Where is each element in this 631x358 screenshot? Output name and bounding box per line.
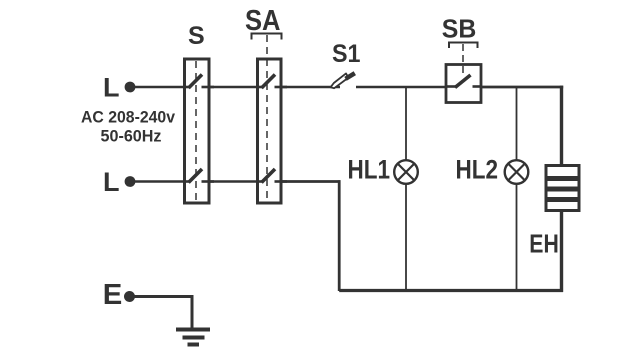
svg-text:L: L xyxy=(103,167,120,197)
switch S1 blade tip xyxy=(346,73,355,79)
switch S pole 2 blade xyxy=(189,169,203,183)
ground bar 1 xyxy=(176,328,210,332)
svg-text:S1: S1 xyxy=(332,40,361,68)
wire ground vertical xyxy=(191,295,194,330)
svg-text:SA: SA xyxy=(245,5,281,37)
switch S pole 1 blade xyxy=(189,75,203,89)
heater EH bar 2 xyxy=(548,187,578,192)
lamp HL2 cross xyxy=(508,164,524,180)
heater EH box xyxy=(546,166,579,211)
lamp HL2 circle xyxy=(505,160,529,184)
switch S box xyxy=(185,59,210,203)
svg-text:EH: EH xyxy=(529,229,559,259)
lamp HL1 circle xyxy=(394,160,418,184)
wire corner down to bottom rail xyxy=(338,180,341,291)
switch SA pole 2 stub left xyxy=(257,180,264,183)
pushbutton SB stub right xyxy=(473,85,483,88)
switch SA bracket xyxy=(252,34,282,40)
pushbutton SB blade xyxy=(455,75,471,88)
svg-text:50-60Hz: 50-60Hz xyxy=(101,127,162,146)
wire SB to right corner xyxy=(481,86,563,89)
svg-text:S: S xyxy=(188,22,205,50)
wire heater EH down to bottom rail xyxy=(560,211,563,292)
switch S dashed line xyxy=(195,61,197,201)
pushbutton SB bracket xyxy=(449,43,478,49)
switch SA dashed line xyxy=(266,35,268,201)
pushbutton SB stub left xyxy=(445,85,457,88)
switch SA pole 2 stub right xyxy=(275,180,288,183)
svg-text:SB: SB xyxy=(442,14,477,44)
lamp HL2 wire bottom xyxy=(516,184,518,291)
switch SA pole 1 stub right xyxy=(275,86,288,89)
lamp HL1 wire bottom xyxy=(405,184,407,291)
wire S to SA top xyxy=(209,86,258,89)
pushbutton SB dashed link xyxy=(462,44,464,74)
wire E to ground xyxy=(134,295,194,298)
switch SA pole 2 blade xyxy=(262,169,276,183)
wire L top to switch S xyxy=(134,86,185,89)
lamp HL1 wire top xyxy=(405,87,407,160)
terminal L (bottom) dot xyxy=(125,176,136,187)
wire L bottom to switch S xyxy=(134,180,185,183)
switch S1 blade outline xyxy=(331,73,349,88)
wire SA bottom to corner xyxy=(281,180,341,183)
lamp HL1 cross xyxy=(398,164,414,180)
wire right corner down to heater EH xyxy=(560,86,563,165)
ground bar 2 xyxy=(183,336,205,340)
pushbutton SB box xyxy=(446,65,481,103)
svg-text:HL1: HL1 xyxy=(348,155,391,185)
wire S1 to SB xyxy=(356,86,447,89)
wire SA to S1 xyxy=(281,86,340,89)
svg-text:AC 208-240v: AC 208-240v xyxy=(81,108,176,127)
switch SA box xyxy=(258,59,282,203)
switch S pole 2 stub right xyxy=(202,180,215,183)
svg-text:L: L xyxy=(103,73,120,103)
ground bar 3 xyxy=(188,343,200,347)
wire S to SA bottom xyxy=(209,180,258,183)
switch SA pole 1 stub left xyxy=(257,86,264,89)
bottom rail xyxy=(339,289,563,292)
switch S pole 1 stub left xyxy=(184,86,191,89)
heater EH bar 3 xyxy=(548,197,578,202)
svg-text:HL2: HL2 xyxy=(456,155,499,185)
switch SA pole 1 blade xyxy=(262,75,276,89)
svg-text:E: E xyxy=(103,279,123,311)
terminal L (top) dot xyxy=(125,82,136,93)
terminal E dot xyxy=(124,291,135,302)
heater EH bar 1 xyxy=(548,176,578,181)
switch S pole 2 stub left xyxy=(184,180,191,183)
switch S pole 1 stub right xyxy=(202,86,215,89)
lamp HL2 wire top xyxy=(516,87,518,160)
